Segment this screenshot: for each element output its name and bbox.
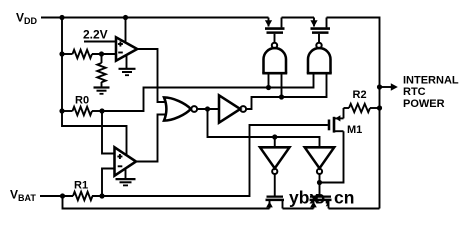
label R1 — [74, 180, 88, 192]
node R2 right junction — [377, 105, 382, 110]
svg-text:2.2V: 2.2V — [83, 28, 108, 42]
label 2.2V — [83, 28, 108, 42]
inverter U5 (down) — [260, 147, 290, 168]
wire buffer output to NAND inputs (net B) — [246, 74, 326, 109]
NOR gate U3 — [164, 97, 191, 120]
wire U5 output to B1 gate — [274, 174, 276, 196]
wire NOR node to inverters U5 U6 — [208, 109, 320, 147]
wire T2 to internal RTC power node — [327, 18, 380, 209]
NAND gate U8 — [316, 43, 321, 48]
label INTERNAL RTC POWER — [403, 75, 459, 110]
transistor M1 — [328, 120, 331, 131]
wire U5 input stub — [274, 137, 276, 147]
wire VDD to comparator U2 power — [62, 111, 127, 155]
resistor divider top (VDD to node) — [62, 53, 73, 55]
label R0 — [75, 95, 89, 107]
wire NOR output to buffer U4 — [197, 108, 219, 110]
wire between T1 and T2 — [282, 17, 315, 19]
ground under op-amp U1 — [126, 55, 128, 69]
resistor R0 — [62, 110, 73, 112]
inverter U6 (down) — [305, 147, 335, 168]
svg-text:POWER: POWER — [403, 98, 445, 110]
node inverter U5 input junction — [272, 134, 277, 139]
wire U1 output to NOR gate input A — [137, 49, 167, 102]
resistor R2 — [344, 107, 350, 109]
wire R0 node to NAND gates (net A) — [102, 74, 314, 111]
wire R0 node to U2 + input — [102, 111, 115, 154]
resistor R1 — [73, 192, 93, 200]
label M1 — [347, 124, 362, 136]
wire R1 node to M1 gate — [92, 125, 328, 196]
ground under op-amp U2 — [125, 168, 127, 179]
node divider left junction — [59, 51, 64, 56]
wire VDD top rail — [41, 17, 269, 19]
svg-text:INTERNAL: INTERNAL — [403, 75, 459, 87]
ground under divider — [94, 86, 110, 88]
wire U6 output to M1 source — [320, 131, 344, 182]
node R1 right junction — [99, 193, 104, 198]
node RTC power output junction — [377, 84, 382, 89]
node VDD label — [16, 11, 38, 27]
node VBAT junction — [60, 193, 65, 198]
wire VBAT sense to U2 - input — [102, 169, 115, 197]
wire 2.2V reference into comparator U1 — [84, 41, 116, 43]
node U6 output junction — [317, 180, 322, 185]
wire VBAT to bottom bus — [63, 196, 270, 209]
op-amp U1 comparator (VDD monitor) — [116, 37, 137, 60]
wire bottom bus right — [329, 208, 380, 210]
svg-text:M1: M1 — [347, 124, 362, 136]
label VBAT — [10, 188, 36, 204]
op-amp U2 comparator (VBAT monitor) — [115, 147, 137, 175]
node divider tap junction — [99, 51, 104, 56]
wire comparator U1 power from VDD — [125, 18, 127, 44]
node VDD junction at x62 — [59, 15, 64, 20]
node NAND1 input B dot — [279, 94, 284, 99]
wire bottom bus middle — [283, 208, 314, 210]
transistor B1 (VBAT switch) — [267, 196, 284, 198]
wire U6 output to B2 gate — [319, 174, 321, 195]
node NOR output junction — [205, 106, 210, 111]
node R0 right junction — [99, 108, 104, 113]
resistor divider bottom (vertical to ground) — [101, 54, 103, 63]
node NAND1 input A dot — [266, 85, 271, 90]
wire VBAT input — [40, 195, 73, 197]
svg-text:cn: cn — [334, 188, 354, 208]
watermark ybx.cn — [289, 188, 354, 208]
label R2 — [353, 89, 367, 101]
NAND gate U7 — [272, 43, 277, 48]
buffer U4 (inverter) — [219, 95, 240, 122]
node R0 left junction — [59, 108, 64, 113]
transistor B2 (VBAT switch) — [310, 196, 331, 198]
node VDD junction at x125.5 — [123, 15, 128, 20]
wire VDD left vertical — [61, 18, 63, 112]
wire U2 output to NOR gate input B — [136, 115, 167, 162]
svg-text:RTC: RTC — [403, 86, 426, 98]
transistor T1 PMOS — [268, 18, 270, 27]
arrow internal RTC power output — [380, 86, 392, 88]
svg-text:R2: R2 — [353, 89, 367, 101]
transistor T2 PMOS — [313, 18, 315, 27]
